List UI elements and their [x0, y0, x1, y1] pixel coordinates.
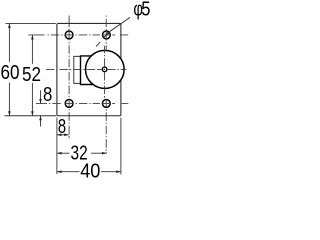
dimension 60 arrows [8, 23, 11, 115]
boss circle [86, 50, 125, 88]
centerline column 2 [105, 16, 107, 154]
dimension 40 line [57, 171, 121, 173]
svg-text:40: 40 [80, 160, 100, 182]
dimension 8 horizontal line [57, 134, 69, 136]
dimension 32 line [57, 152, 107, 154]
dimension 32 arrows [57, 152, 107, 155]
extension bottom edge left [5, 115, 57, 117]
lug bold edge [81, 56, 94, 85]
extension right edge down [120, 118, 122, 175]
center bore circle [102, 67, 107, 72]
dimension 52 arrows [31, 35, 34, 116]
dimension 8 vertical arrows [39, 99, 42, 120]
svg-text:8: 8 [43, 83, 52, 106]
extension top edge left [6, 22, 56, 24]
svg-text:8: 8 [58, 115, 66, 138]
centerline column 1 [68, 16, 70, 139]
hole top-right [103, 31, 111, 39]
dimension 8 vertical line [40, 90, 42, 126]
leader arrowhead [106, 32, 110, 36]
lug thin rectangle [74, 56, 81, 83]
hole bottom-right [102, 100, 110, 108]
svg-text:60: 60 [1, 61, 20, 84]
hole bottom-left [65, 100, 73, 108]
dimension 52 line [31, 35, 33, 116]
leader line phi5 [96, 17, 130, 46]
dimension 60 line [8, 23, 10, 115]
centerline row 2 [36, 102, 128, 104]
svg-text:52: 52 [22, 63, 41, 86]
boss horizontal centerline [46, 68, 127, 70]
boss vertical centerline [104, 46, 106, 98]
dimension 40 arrows [57, 170, 121, 173]
hole top-left [65, 31, 73, 39]
extension left edge down [56, 118, 58, 175]
dimension 8 horizontal arrows [57, 134, 69, 137]
centerline row 1 [28, 34, 128, 36]
plate outline [57, 23, 121, 115]
svg-text:5: 5 [141, 0, 150, 20]
